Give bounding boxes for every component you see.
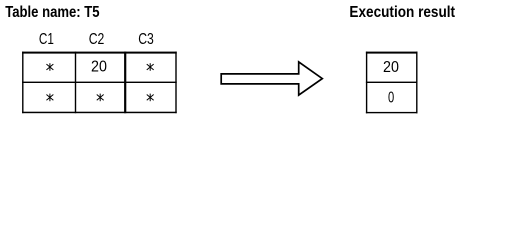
svg-text:C2: C2: [89, 31, 105, 48]
svg-text:C3: C3: [138, 31, 154, 48]
svg-text:C1: C1: [39, 31, 54, 48]
svg-text:20: 20: [383, 59, 399, 76]
svg-text:Table name: T5: Table name: T5: [5, 4, 99, 21]
svg-text:0: 0: [388, 89, 394, 106]
svg-text:20: 20: [91, 59, 107, 76]
svg-text:Execution result: Execution result: [349, 4, 455, 21]
